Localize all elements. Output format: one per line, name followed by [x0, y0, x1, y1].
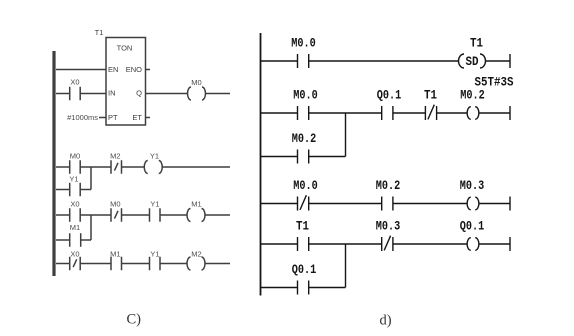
- svg-text:IN: IN: [108, 88, 116, 97]
- svg-text:M2: M2: [191, 250, 201, 259]
- svg-text:X0: X0: [70, 199, 79, 208]
- svg-text:M0.3: M0.3: [460, 179, 485, 193]
- svg-text:M0: M0: [110, 199, 120, 208]
- svg-text:#1000ms: #1000ms: [67, 113, 98, 122]
- svg-text:T1: T1: [95, 28, 104, 37]
- svg-text:M0.2: M0.2: [460, 89, 485, 103]
- svg-text:S5T#3S: S5T#3S: [475, 76, 514, 90]
- svg-text:C): C): [127, 312, 142, 328]
- svg-text:X0: X0: [70, 78, 79, 87]
- svg-text:M0.0: M0.0: [293, 179, 318, 193]
- svg-text:M0.2: M0.2: [292, 132, 317, 146]
- svg-text:M1: M1: [110, 250, 120, 259]
- svg-text:M0: M0: [191, 78, 201, 87]
- svg-text:Y1: Y1: [150, 152, 159, 161]
- svg-text:EN: EN: [108, 65, 118, 74]
- svg-text:Y1: Y1: [69, 175, 78, 184]
- svg-text:M0.2: M0.2: [376, 179, 401, 193]
- svg-text:M0.0: M0.0: [291, 37, 316, 51]
- svg-text:T1: T1: [424, 89, 437, 103]
- svg-text:Q0.1: Q0.1: [377, 89, 402, 103]
- svg-text:d): d): [380, 313, 392, 329]
- svg-text:X0: X0: [70, 250, 79, 259]
- svg-text:ENO: ENO: [126, 65, 142, 74]
- svg-text:M0.3: M0.3: [376, 220, 401, 234]
- svg-text:M0: M0: [70, 152, 80, 161]
- svg-text:Q0.1: Q0.1: [292, 263, 317, 277]
- svg-text:Q0.1: Q0.1: [460, 220, 485, 234]
- svg-text:PT: PT: [108, 113, 118, 122]
- svg-text:M1: M1: [70, 223, 80, 232]
- svg-text:M1: M1: [191, 199, 201, 208]
- svg-text:Q: Q: [136, 88, 142, 97]
- svg-text:T1: T1: [470, 37, 483, 51]
- svg-text:Y1: Y1: [150, 250, 159, 259]
- svg-text:Y1: Y1: [150, 199, 159, 208]
- svg-text:T1: T1: [296, 220, 309, 234]
- svg-text:M2: M2: [110, 152, 120, 161]
- svg-text:M0.0: M0.0: [293, 89, 318, 103]
- svg-text:ET: ET: [132, 113, 142, 122]
- svg-text:TON: TON: [117, 44, 133, 53]
- svg-text:SD: SD: [466, 55, 479, 69]
